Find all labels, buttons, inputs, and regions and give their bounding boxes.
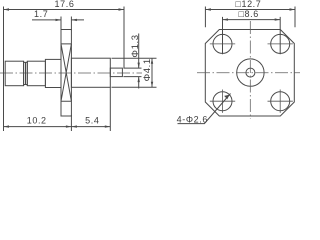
wire centerline left view <box>0 72 142 74</box>
node pin <box>110 68 122 77</box>
hole bottom-left <box>213 92 232 111</box>
wire extension lines 1.7 <box>61 17 71 31</box>
hole bottom-right <box>271 92 290 111</box>
hole top-left <box>213 34 232 53</box>
node A: connector tip section <box>5 61 23 85</box>
svg-text:17.6: 17.6 <box>55 0 75 9</box>
arrow 10.2 right <box>66 125 72 127</box>
svg-text:4-Φ2.6: 4-Φ2.6 <box>177 114 208 124</box>
wire center vertical centerline <box>249 21 251 119</box>
arrow 12.7 right <box>290 8 296 10</box>
arrow 1.7 left <box>56 19 62 21</box>
wire dim line 12.7 <box>205 9 295 11</box>
node groove <box>24 61 28 85</box>
svg-text:□12.7: □12.7 <box>235 0 261 9</box>
wire dim line phi4.1 <box>151 58 153 87</box>
wire extension lines phi1.3 <box>123 68 141 77</box>
wire dim line 17.6 <box>4 9 125 11</box>
wire extension line flange right bottom <box>70 115 72 131</box>
wire dim line 10.2 and 5.4 <box>4 126 111 128</box>
wire center horizontal centerline <box>197 72 300 74</box>
node C: hex body section <box>45 59 61 87</box>
arrow 8.6 right <box>275 18 281 20</box>
wire extension lines phi4.1 <box>112 58 157 87</box>
node B: body section <box>27 61 45 85</box>
wire extension lines 8.6 through holes <box>223 17 281 54</box>
wire leader 4-phi2.6 <box>178 94 231 124</box>
arrow phi4.1 top <box>151 58 153 64</box>
wire extension line barrel right bottom <box>109 88 111 132</box>
node flange side view <box>61 30 71 117</box>
arrow phi1.3 bottom <box>138 77 140 83</box>
wire extension line pin tip <box>123 7 125 69</box>
arrow 5.4 right <box>105 125 111 127</box>
arrow 17.6 left <box>4 8 10 10</box>
wire dim line 8.6 <box>223 19 281 21</box>
wire dim line 1.7 <box>32 19 84 21</box>
arrow 1.7 right <box>71 19 77 21</box>
arrow 5.4 left <box>71 125 77 127</box>
arrow 10.2 left <box>4 125 10 127</box>
node center circle outer <box>237 59 264 86</box>
arrow phi1.3 top <box>138 63 140 69</box>
svg-text:10.2: 10.2 <box>27 116 47 126</box>
arrow 8.6 left <box>223 18 229 20</box>
wire dim line phi1.3 <box>138 34 140 89</box>
svg-text:□8.6: □8.6 <box>239 9 259 19</box>
node barrel <box>71 58 110 87</box>
wire hole centerlines <box>210 44 293 113</box>
arrow phi4.1 bottom <box>151 82 153 88</box>
svg-text:Φ4.1: Φ4.1 <box>142 58 153 81</box>
arrow 12.7 left <box>205 8 211 10</box>
svg-text:5.4: 5.4 <box>85 116 99 126</box>
node flange front square <box>205 30 294 117</box>
hole top-right <box>271 34 290 53</box>
wire extension lines 12.7 <box>205 7 295 28</box>
arrow leader 2.6 <box>224 95 229 100</box>
svg-text:1.7: 1.7 <box>34 9 48 19</box>
svg-text:Φ1.3: Φ1.3 <box>130 34 141 57</box>
wire extension line left <box>3 7 5 132</box>
arrow 17.6 right <box>119 8 125 10</box>
node center circle inner <box>246 68 255 77</box>
